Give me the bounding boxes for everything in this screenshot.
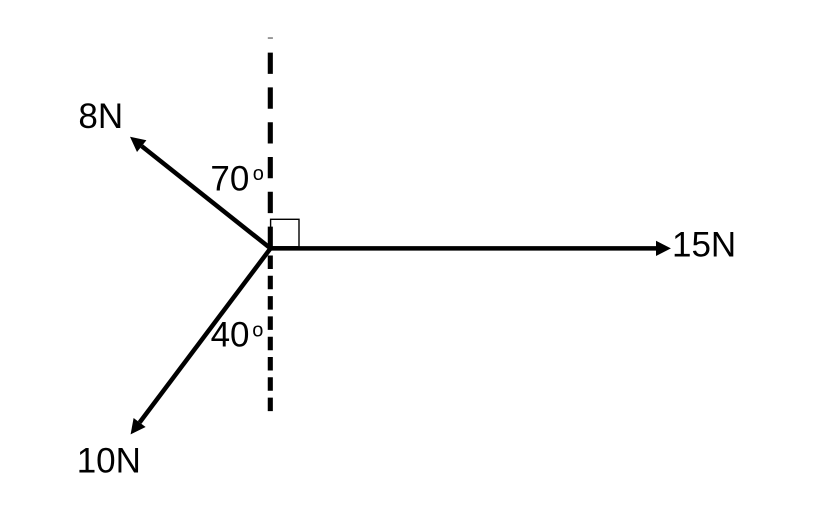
svg-text:o: o [252,320,263,342]
8N force vector shaft (up-left) [142,146,271,248]
8N arrowhead [130,137,146,152]
dashed vertical reference line: top partial dash sliver [268,37,273,39]
10N arrowhead [131,418,146,434]
right-angle marker square at vertex [271,219,299,247]
15N arrowhead [656,241,671,256]
svg-text:10N: 10N [77,442,141,481]
dashed vertical reference line (upper segment, above vertex) [268,53,273,248]
dashed vertical reference line (lower segment, below vertex) [268,256,273,412]
svg-text:40: 40 [211,316,250,355]
10N force vector shaft (down-left) [140,248,271,422]
svg-text:15N: 15N [672,226,736,265]
15N force vector shaft (horizontal, to the right) [271,246,658,251]
svg-text:o: o [253,163,264,185]
svg-text:8N: 8N [78,97,123,136]
svg-text:70: 70 [210,160,249,199]
